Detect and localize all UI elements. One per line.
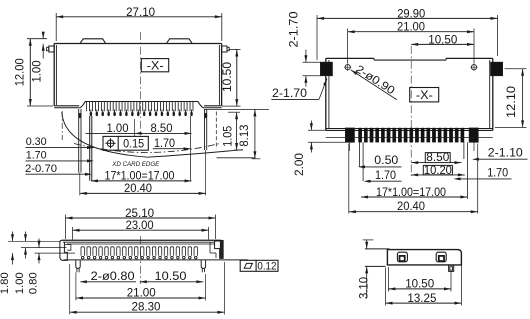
basic dimension 10.20 boxed (411, 164, 465, 177)
svg-text:-X-: -X- (416, 90, 433, 102)
view 3 left end hook (60, 240, 71, 260)
dimension 2.00 (view 2 left) (293, 121, 345, 177)
view 1 center line (140, 32, 142, 137)
svg-text:2-1.70: 2-1.70 (272, 87, 307, 100)
view 2 terminal extension lines (349, 142, 478, 213)
view 4 bottom tab (449, 265, 454, 271)
flatness tolerance frame 0.12 (240, 260, 278, 272)
label 1.70 (view 2 left) (364, 169, 402, 183)
svg-text:10.20: 10.20 (424, 164, 452, 177)
view 2 hole left (344, 64, 351, 71)
svg-text:28.30: 28.30 (132, 299, 161, 313)
label 2-0.70 left (25, 163, 92, 176)
svg-text:2-0.70: 2-0.70 (25, 163, 57, 175)
dimension 12.00 left (13, 39, 54, 106)
dimension 10.50 (view 3) (140, 269, 204, 283)
view 1 first pin extension lines (80, 116, 206, 195)
label 1.70 (view 2 right) (454, 167, 512, 181)
svg-text:-X-: -X- (147, 61, 164, 73)
view 1 housing bottom right edge (217, 157, 256, 159)
label 0.30 left (26, 136, 95, 149)
dimension 25.10 (view 3) (66, 206, 216, 239)
svg-text:0.30: 0.30 (26, 136, 47, 148)
dimension 28.30 (view 3) (70, 262, 225, 315)
view 1 shell end tab left (78, 109, 81, 173)
label 2-o0.80 (view 3) (80, 269, 136, 283)
svg-text:1.00: 1.00 (30, 60, 44, 82)
leader 2-o0.90 (350, 63, 397, 100)
view 2 center line (410, 46, 412, 176)
dimension 20.40 (view 1) (80, 181, 206, 195)
svg-text:20.40: 20.40 (397, 199, 425, 213)
dimension 1.00 (view 3 left) (14, 232, 67, 295)
dimension 21.00 (view 3) (76, 273, 206, 301)
svg-text:1.80: 1.80 (0, 272, 11, 294)
view 3 center line (140, 236, 142, 284)
label 2-1.70 (view 2 left) (271, 78, 328, 100)
svg-text:21.00: 21.00 (127, 285, 156, 299)
view 4 latch window left (397, 252, 407, 262)
dimension 1.05 right (204, 109, 269, 150)
svg-text:1.70: 1.70 (375, 169, 396, 182)
svg-text:1.70: 1.70 (26, 150, 47, 162)
svg-text:20.40: 20.40 (124, 181, 152, 195)
label 2-1.10 (view 2 right) (472, 147, 528, 161)
dimension 10.50 (view 4) (388, 267, 451, 292)
svg-text:1.70: 1.70 (154, 137, 175, 150)
view 3 mounting peg right (201, 260, 205, 272)
view 2 datum label -X- (410, 88, 439, 103)
dimension 1.00 left (30, 32, 45, 83)
dimension 29.90 (view 2) (317, 6, 498, 60)
view 2 body outline (326, 58, 493, 130)
svg-text:12.00: 12.00 (13, 58, 27, 86)
svg-text:1.00: 1.00 (107, 121, 129, 135)
dimension 1.00 pitch (view 1) (86, 121, 192, 135)
view 3 body outline (61, 240, 248, 260)
dimension 10.50 (view 2) (411, 32, 474, 46)
dimension 1.80 (view 3 left) (0, 232, 61, 295)
view 1 side lug right (222, 46, 230, 52)
view 1 top mounting tab right (166, 39, 192, 44)
GD&T position tolerance frame 0.15 (103, 136, 148, 150)
view 2 hole right (471, 64, 478, 71)
view 1 card edge centerline arc (74, 144, 220, 153)
svg-text:10.50: 10.50 (220, 62, 234, 92)
dimension 21.00 (view 2) (348, 20, 474, 64)
view 1 front view - dimension 27.10 (56, 5, 222, 41)
view 1 shell body outline (54, 44, 221, 108)
view 4 side profile body (365, 249, 462, 267)
view 1 datum label -X- (141, 59, 168, 73)
view 3 contact teeth (81, 247, 197, 259)
svg-text:2-1.70: 2-1.70 (288, 12, 301, 48)
svg-text:8.13: 8.13 (238, 125, 251, 147)
dimension 8.13 right (238, 109, 260, 158)
label 1.70 left (26, 150, 95, 163)
svg-text:1.05: 1.05 (221, 126, 234, 147)
dimension 23.00 (view 3) (73, 218, 209, 239)
view 4 latch window right (436, 252, 446, 262)
svg-text:2.00: 2.00 (293, 153, 306, 176)
basic dimension 8.50 boxed (411, 151, 461, 164)
svg-text:1.70: 1.70 (487, 167, 508, 180)
svg-text:0.80: 0.80 (28, 272, 40, 294)
view 3 mounting peg left (76, 260, 80, 272)
view 1 top mounting tab left (80, 39, 106, 44)
svg-text:0.15: 0.15 (123, 137, 144, 151)
view 2 corner ground pad right (491, 62, 503, 75)
dimension 20.40 (view 2) (349, 199, 478, 213)
view 3 right end clip (210, 240, 223, 258)
svg-text:0.12: 0.12 (257, 260, 276, 272)
view 1 card guide housing curve (62, 112, 243, 157)
svg-text:8.50: 8.50 (426, 151, 449, 164)
dimension 2-1.70 rotated (view 2 top-left) (288, 12, 322, 87)
dimension 0.80 (view 3 left) (28, 239, 76, 295)
svg-text:3.10: 3.10 (357, 277, 370, 299)
view 1 side lug left (47, 46, 55, 52)
svg-text:10.50: 10.50 (405, 276, 434, 290)
view 1 hidden line right (215, 112, 217, 150)
svg-text:0.50: 0.50 (374, 154, 398, 167)
view 1 contact pins row (90, 110, 193, 117)
svg-text:2-ø0.80: 2-ø0.80 (91, 269, 135, 283)
view 1 contact comb (79, 102, 204, 112)
view 1 hidden line left (61, 111, 63, 140)
dimension 13.25 (view 4) (386, 266, 462, 306)
svg-text:10.50: 10.50 (155, 269, 187, 283)
svg-text:12.10: 12.10 (504, 86, 518, 118)
dimension 17*1.00=17.00 (view 2) (361, 185, 467, 199)
dimension 1.70 (view 1 mid) (153, 137, 191, 150)
dimension 3.10 (view 4) (357, 240, 373, 299)
dimension 17*1.00=17.00 (view 1) (91, 169, 192, 183)
view 2 corner ground pad left (321, 62, 333, 75)
view 2 terminal row (326, 128, 493, 142)
dimension 10.50 right (220, 50, 240, 107)
svg-text:1.00: 1.00 (14, 272, 26, 294)
svg-text:XD CARD EDGE: XD CARD EDGE (111, 161, 159, 168)
dimension 12.10 (view 2 right) (495, 69, 527, 128)
label 0.50 (view 2) (358, 154, 402, 168)
svg-text:2-1.10: 2-1.10 (488, 147, 523, 160)
view 1 shell end tab right (204, 109, 207, 150)
